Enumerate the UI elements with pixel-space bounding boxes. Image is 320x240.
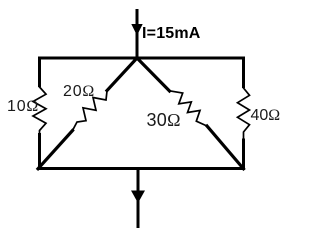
svg-text:10Ω: 10Ω — [7, 98, 39, 115]
svg-text:I=15mA: I=15mA — [142, 25, 201, 42]
svg-text:40Ω: 40Ω — [251, 107, 281, 124]
svg-text:20Ω: 20Ω — [63, 83, 95, 100]
svg-text:30Ω: 30Ω — [147, 110, 181, 130]
